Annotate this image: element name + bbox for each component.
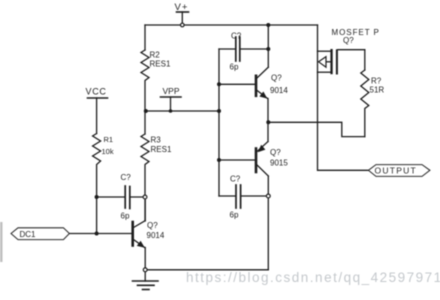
svg-text:Q?: Q?: [271, 74, 282, 83]
svg-text:OUTPUT: OUTPUT: [375, 166, 417, 176]
svg-text:VPP: VPP: [163, 86, 180, 96]
svg-text:Q?: Q?: [270, 148, 281, 157]
svg-text:C?: C?: [231, 32, 242, 41]
svg-text:9015: 9015: [270, 159, 288, 168]
svg-text:9014: 9014: [270, 86, 288, 95]
svg-text:RES1: RES1: [150, 60, 171, 69]
svg-text:6p: 6p: [230, 63, 239, 72]
svg-text:C?: C?: [121, 173, 132, 182]
svg-text:DC1: DC1: [20, 230, 37, 239]
svg-text:51R: 51R: [370, 86, 385, 95]
svg-text:6p: 6p: [230, 211, 239, 220]
svg-text:https://blog.csdn.net/qq_42597: https://blog.csdn.net/qq_42597971: [186, 270, 440, 285]
svg-text:R2: R2: [150, 51, 161, 60]
svg-text:VCC: VCC: [86, 87, 107, 97]
svg-text:R3: R3: [151, 136, 162, 145]
svg-text:R?: R?: [371, 77, 382, 86]
svg-text:10k: 10k: [102, 147, 114, 156]
svg-text:9014: 9014: [147, 231, 165, 240]
svg-text:Q?: Q?: [147, 221, 158, 230]
svg-text:MOSFET P: MOSFET P: [332, 28, 380, 37]
svg-text:R1: R1: [104, 135, 114, 144]
svg-text:6p: 6p: [121, 212, 130, 221]
svg-text:C?: C?: [230, 175, 241, 184]
svg-text:V+: V+: [175, 2, 189, 13]
svg-text:Q?: Q?: [343, 36, 354, 45]
svg-text:RES1: RES1: [151, 145, 172, 154]
